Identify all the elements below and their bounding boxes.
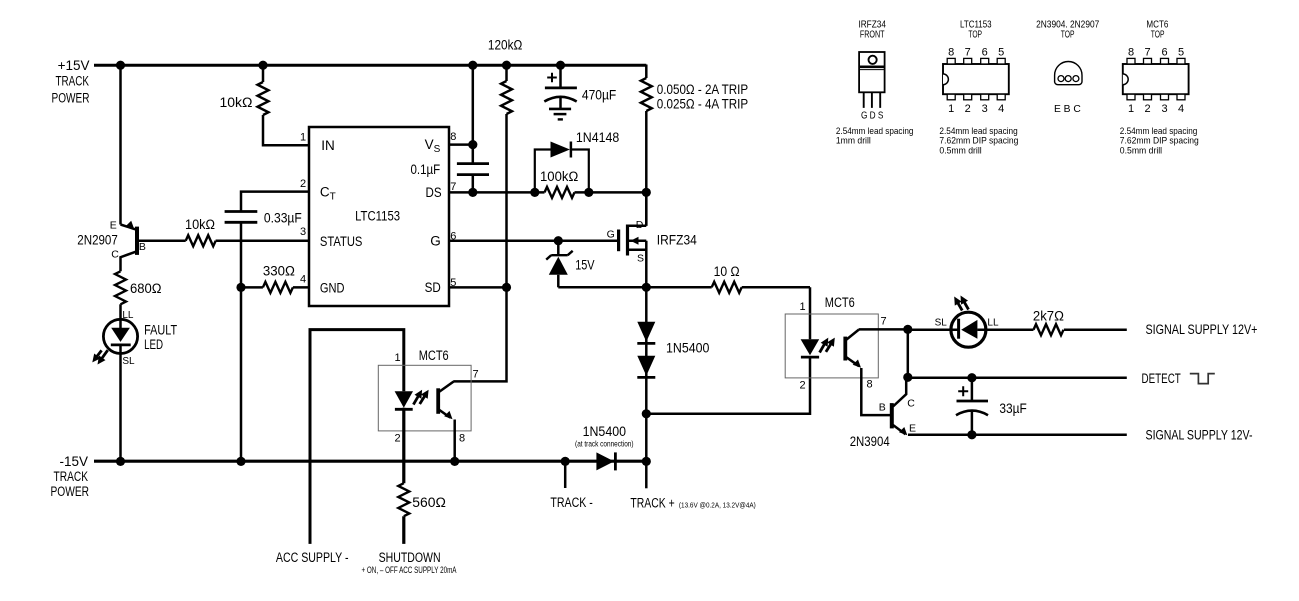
svg-text:120kΩ: 120kΩ	[488, 38, 522, 53]
svg-text:33µF: 33µF	[999, 401, 1026, 416]
svg-text:100kΩ: 100kΩ	[540, 169, 578, 184]
svg-text:DS: DS	[426, 185, 442, 200]
svg-text:SIGNAL SUPPLY 12V-: SIGNAL SUPPLY 12V-	[1146, 428, 1253, 443]
svg-text:B: B	[879, 402, 886, 414]
svg-text:1N5400: 1N5400	[583, 424, 626, 439]
svg-text:6: 6	[1161, 47, 1167, 59]
svg-text:LL: LL	[122, 310, 134, 321]
svg-text:7: 7	[1144, 47, 1150, 59]
svg-text:E B C: E B C	[1054, 103, 1081, 115]
svg-text:LL: LL	[987, 317, 999, 328]
svg-text:TOP: TOP	[1061, 29, 1075, 41]
svg-text:E: E	[909, 422, 916, 434]
svg-text:SD: SD	[425, 280, 441, 295]
svg-text:TRACK +: TRACK +	[630, 496, 674, 511]
svg-text:1: 1	[300, 132, 306, 144]
svg-text:1mm drill: 1mm drill	[836, 136, 871, 147]
svg-text:POWER: POWER	[51, 484, 90, 499]
svg-text:SL: SL	[935, 318, 948, 329]
svg-text:G: G	[607, 229, 615, 241]
svg-text:(13.6V @0.2A, 13.2V@4A): (13.6V @0.2A, 13.2V@4A)	[679, 500, 756, 509]
svg-text:SIGNAL SUPPLY 12V+: SIGNAL SUPPLY 12V+	[1146, 322, 1258, 337]
svg-text:4: 4	[300, 274, 306, 286]
svg-text:3: 3	[982, 103, 988, 115]
svg-text:2: 2	[799, 380, 805, 392]
svg-text:7: 7	[450, 181, 456, 193]
svg-text:10kΩ: 10kΩ	[220, 95, 253, 110]
svg-text:FRONT: FRONT	[860, 29, 885, 41]
svg-text:IN: IN	[321, 138, 335, 153]
svg-text:4: 4	[998, 103, 1004, 115]
svg-text:8: 8	[866, 379, 872, 391]
svg-text:2k7Ω: 2k7Ω	[1033, 308, 1064, 323]
svg-text:4: 4	[1178, 103, 1184, 115]
svg-text:TOP: TOP	[1151, 29, 1165, 41]
svg-text:ACC SUPPLY -: ACC SUPPLY -	[276, 550, 349, 565]
svg-text:TRACK: TRACK	[56, 73, 90, 88]
svg-text:2: 2	[394, 433, 400, 445]
svg-text:5: 5	[1178, 47, 1184, 59]
svg-text:2: 2	[300, 178, 306, 190]
svg-text:8: 8	[1128, 47, 1134, 59]
svg-text:(at track connection): (at track connection)	[575, 439, 634, 449]
svg-text:560Ω: 560Ω	[412, 495, 446, 510]
svg-text:-15V: -15V	[59, 454, 88, 469]
svg-text:STATUS: STATUS	[320, 234, 363, 249]
svg-text:10kΩ: 10kΩ	[185, 217, 215, 232]
svg-text:C: C	[111, 248, 119, 260]
svg-text:7: 7	[965, 47, 971, 59]
svg-text:470µF: 470µF	[582, 88, 616, 103]
svg-text:0.33µF: 0.33µF	[264, 210, 302, 225]
svg-text:E: E	[110, 220, 117, 232]
svg-text:D: D	[636, 219, 644, 231]
svg-text:0.5mm drill: 0.5mm drill	[939, 145, 981, 156]
svg-text:DETECT: DETECT	[1142, 371, 1181, 386]
svg-text:680Ω: 680Ω	[130, 281, 162, 296]
svg-text:+ ON, – OFF ACC SUPPLY 20mA: + ON, – OFF ACC SUPPLY 20mA	[362, 565, 457, 575]
svg-text:3: 3	[300, 226, 306, 238]
svg-text:8: 8	[459, 433, 465, 445]
svg-text:10 Ω: 10 Ω	[714, 264, 740, 279]
svg-text:+15V: +15V	[58, 58, 90, 73]
svg-text:1N4148: 1N4148	[576, 130, 619, 145]
svg-text:2N3904: 2N3904	[850, 434, 890, 449]
svg-text:2: 2	[1144, 103, 1150, 115]
svg-text:2N2907: 2N2907	[77, 233, 118, 248]
svg-text:8: 8	[450, 131, 456, 143]
svg-text:POWER: POWER	[52, 90, 90, 105]
svg-text:TRACK: TRACK	[54, 469, 89, 484]
svg-text:7: 7	[880, 316, 886, 328]
svg-text:15V: 15V	[575, 257, 594, 272]
svg-text:0.5mm drill: 0.5mm drill	[1120, 145, 1162, 156]
svg-text:FAULT: FAULT	[144, 323, 177, 338]
svg-text:S: S	[637, 253, 644, 265]
svg-text:330Ω: 330Ω	[263, 264, 295, 279]
svg-text:C: C	[907, 398, 915, 410]
svg-text:5: 5	[450, 277, 456, 289]
svg-text:LTC1153: LTC1153	[355, 208, 400, 223]
svg-text:B: B	[139, 241, 146, 253]
svg-text:6: 6	[982, 47, 988, 59]
svg-text:TOP: TOP	[968, 29, 982, 41]
svg-text:1: 1	[394, 352, 400, 364]
svg-text:8: 8	[948, 47, 954, 59]
svg-text:0.050Ω - 2A TRIP: 0.050Ω - 2A TRIP	[657, 82, 748, 97]
svg-text:IRFZ34: IRFZ34	[657, 233, 697, 248]
svg-text:0.1µF: 0.1µF	[411, 162, 441, 177]
svg-text:1N5400: 1N5400	[666, 340, 709, 355]
svg-text:MCT6: MCT6	[825, 295, 855, 310]
svg-text:G D S: G D S	[861, 110, 884, 122]
svg-text:5: 5	[998, 47, 1004, 59]
svg-text:1: 1	[948, 103, 954, 115]
svg-text:MCT6: MCT6	[419, 348, 449, 363]
svg-text:7: 7	[472, 368, 478, 380]
svg-text:3: 3	[1161, 103, 1167, 115]
svg-text:G: G	[430, 234, 441, 249]
svg-text:GND: GND	[320, 280, 345, 295]
svg-text:2: 2	[965, 103, 971, 115]
svg-text:1: 1	[799, 301, 805, 313]
svg-text:1: 1	[1128, 103, 1134, 115]
svg-text:SHUTDOWN: SHUTDOWN	[379, 550, 441, 565]
svg-text:0.025Ω - 4A TRIP: 0.025Ω - 4A TRIP	[657, 96, 748, 111]
svg-text:TRACK -: TRACK -	[550, 495, 593, 510]
svg-text:LED: LED	[144, 337, 163, 352]
svg-text:SL: SL	[122, 356, 135, 367]
svg-text:6: 6	[450, 230, 456, 242]
